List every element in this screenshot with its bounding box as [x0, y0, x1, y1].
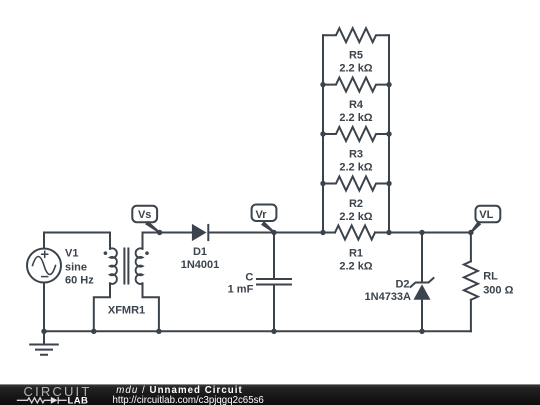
- svg-text:R3: R3: [349, 148, 363, 160]
- node dot rail left R4: [320, 82, 325, 87]
- transformer XFMR1 secondary coil: [136, 248, 143, 284]
- svg-text:300 Ω: 300 Ω: [483, 285, 513, 297]
- node dot rail left main: [320, 230, 325, 235]
- node dot rail right R3: [386, 131, 391, 136]
- wire bottom rail: [44, 330, 471, 332]
- node dot rail left R3: [320, 131, 325, 136]
- svg-text:LAB: LAB: [68, 395, 89, 405]
- node dot rail right R2: [386, 181, 391, 186]
- ladder left rail: [322, 35, 324, 232]
- svg-text:2.2 kΩ: 2.2 kΩ: [339, 260, 372, 272]
- node dot VL: [468, 230, 473, 235]
- node dot rail right R4: [386, 82, 391, 87]
- footer bar: [0, 384, 540, 405]
- svg-text:http://circuitlab.com/c3pjqgq2: http://circuitlab.com/c3pjqgq2c65s6: [113, 395, 264, 405]
- svg-text:D2: D2: [395, 278, 409, 290]
- ladder right rail: [388, 35, 390, 232]
- transformer core: [124, 249, 128, 284]
- zener D2 cathode bar: [411, 278, 434, 287]
- svg-text:R1: R1: [349, 247, 363, 259]
- svg-text:C: C: [245, 272, 253, 284]
- svg-text:60 Hz: 60 Hz: [65, 275, 94, 287]
- node label VL: [470, 206, 500, 233]
- wire D1 cathode to ladder left rail: [209, 232, 336, 234]
- svg-text:RL: RL: [483, 271, 498, 283]
- svg-text:D1: D1: [193, 246, 207, 258]
- svg-text:V1: V1: [65, 248, 78, 260]
- wire transformer secondary bottom: [143, 283, 159, 331]
- node dot D2 top: [419, 230, 424, 235]
- capacitor C plates: [257, 279, 291, 285]
- node dot D2 bottom: [419, 329, 424, 334]
- node dot ground V1: [41, 329, 46, 334]
- node label Vr: [252, 205, 277, 234]
- wire transformer secondary top to D1 anode: [143, 233, 192, 249]
- zener D2 triangle: [414, 284, 431, 300]
- resistor R4 rung: [323, 78, 389, 92]
- ground symbol: [30, 331, 58, 354]
- svg-text:VL: VL: [479, 209, 493, 221]
- transformer XFMR1 primary coil: [110, 248, 117, 284]
- node label Vs: [132, 206, 160, 234]
- node dot primary bottom: [91, 329, 96, 334]
- svg-text:1N4733A: 1N4733A: [365, 291, 412, 303]
- transformer phase dot primary: [104, 251, 108, 255]
- svg-text:sine: sine: [65, 262, 87, 274]
- source V1 plus sign: [42, 251, 48, 257]
- wire transformer primary bottom: [94, 283, 110, 331]
- logo schematic glyph: [17, 397, 67, 404]
- diode D1 cathode bar: [207, 224, 209, 241]
- capacitor C wires: [273, 233, 275, 332]
- svg-text:Vr: Vr: [255, 209, 267, 221]
- wire V1 top to transformer primary: [44, 233, 110, 249]
- node dot rail right main: [386, 230, 391, 235]
- svg-text:1 mF: 1 mF: [228, 284, 254, 296]
- source V1 circle: [27, 249, 61, 283]
- node dot cap bottom: [271, 329, 276, 334]
- resistor R3 rung: [323, 127, 389, 141]
- source V1 sine: [33, 257, 56, 275]
- source V1 minus sign: [42, 276, 48, 278]
- zener D2 wires: [421, 233, 423, 332]
- wire R1 right to VL node: [375, 232, 471, 234]
- node dot Vs: [157, 230, 162, 235]
- svg-text:2.2 kΩ: 2.2 kΩ: [339, 211, 372, 223]
- resistor R1 zigzag: [335, 226, 375, 240]
- node dot secondary bottom: [156, 329, 161, 334]
- resistor RL zigzag: [464, 261, 478, 300]
- diode D1: [192, 224, 207, 241]
- svg-text:1N4001: 1N4001: [181, 259, 220, 271]
- svg-text:Vs: Vs: [138, 209, 151, 221]
- resistor RL wires: [470, 233, 472, 332]
- svg-text:R2: R2: [349, 198, 363, 210]
- node dot rail left R2: [320, 181, 325, 186]
- transformer phase dot secondary: [145, 251, 149, 255]
- svg-text:R4: R4: [349, 99, 364, 111]
- logo diode glyph: [51, 397, 58, 404]
- resistor R2 rung: [323, 177, 389, 191]
- node dot Vr: [271, 230, 276, 235]
- wire V1 bottom to ground rail: [43, 283, 45, 332]
- svg-text:R5: R5: [349, 50, 363, 62]
- svg-text:XFMR1: XFMR1: [108, 305, 145, 317]
- svg-text:2.2 kΩ: 2.2 kΩ: [339, 112, 372, 124]
- svg-text:2.2 kΩ: 2.2 kΩ: [339, 63, 372, 75]
- svg-text:2.2 kΩ: 2.2 kΩ: [339, 161, 372, 173]
- resistor R5 rung: [323, 28, 389, 42]
